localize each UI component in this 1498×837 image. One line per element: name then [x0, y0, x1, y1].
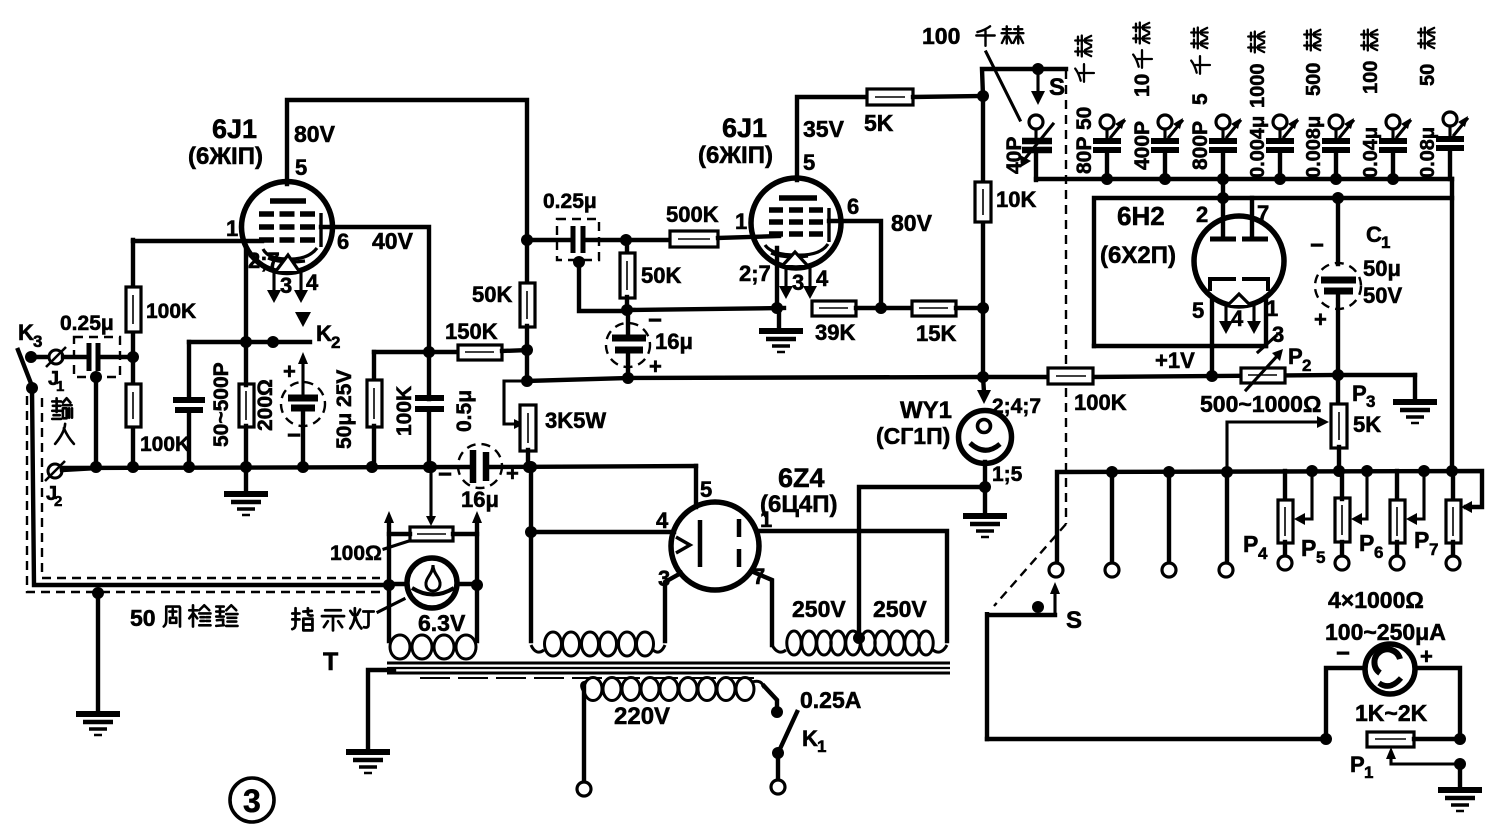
- wire K2 row: [189, 336, 310, 348]
- svg-text:P: P: [1414, 527, 1429, 553]
- capacitor 0.08u: [1417, 28, 1468, 179]
- svg-text:7: 7: [753, 564, 765, 589]
- svg-text:500K: 500K: [666, 202, 719, 227]
- label 220V: [614, 703, 670, 730]
- wire tube1 grid pin1: [133, 239, 262, 243]
- svg-text:4: 4: [1231, 306, 1244, 331]
- wiper P1: [1386, 747, 1466, 770]
- label lamp: [292, 599, 404, 630]
- wire left osc column: [183, 342, 195, 473]
- capacitor 0.25u input: [60, 312, 120, 377]
- svg-text:250V: 250V: [792, 596, 846, 622]
- svg-text:+: +: [1314, 307, 1327, 332]
- svg-text:3: 3: [280, 273, 292, 298]
- wire heater right arm: [471, 511, 483, 641]
- svg-text:0.08μ: 0.08μ: [1417, 127, 1439, 178]
- capacitor 50u 25V electrolytic: [281, 352, 356, 473]
- svg-text:50K: 50K: [472, 282, 512, 307]
- svg-text:150K: 150K: [445, 319, 498, 344]
- svg-text:C: C: [1366, 222, 1382, 247]
- svg-text:−: −: [438, 461, 452, 488]
- svg-text:1: 1: [1266, 296, 1278, 321]
- svg-text:3: 3: [243, 783, 261, 819]
- ground WY1: [963, 516, 1007, 537]
- tube V4 6Z4: [671, 502, 759, 590]
- capacitor 80P: [1073, 36, 1125, 185]
- resistor 100K upper: [126, 287, 196, 332]
- svg-text:6Z4: 6Z4: [778, 463, 825, 493]
- capacitor 0.25u coupling2: [527, 190, 626, 260]
- potentiometer P1: [1350, 732, 1466, 782]
- svg-text:1;5: 1;5: [992, 463, 1023, 486]
- svg-text:5K: 5K: [864, 110, 894, 136]
- label pin1 tube2: [735, 209, 747, 234]
- capacitor 50~500P variable: [173, 362, 233, 447]
- svg-text:15K: 15K: [916, 321, 956, 346]
- terminal mains left: [577, 686, 591, 796]
- label 2;4;7: [992, 395, 1041, 418]
- switch S top arrow: [1031, 72, 1065, 105]
- svg-text:+1V: +1V: [1155, 348, 1195, 373]
- wire shielded lead: [32, 388, 386, 585]
- capacitor C1 50u: [1310, 192, 1402, 381]
- transformer HV winding: [772, 631, 947, 655]
- rheostat 100ohm hum: [330, 467, 477, 565]
- svg-text:3: 3: [658, 566, 670, 591]
- wire tube2 cathode: [771, 248, 783, 314]
- transformer lamp winding: [390, 635, 476, 659]
- svg-text:P: P: [1350, 752, 1365, 777]
- label V4 name: [760, 463, 837, 518]
- wire HV center tap: [853, 487, 985, 644]
- svg-text:400P: 400P: [1131, 121, 1154, 170]
- label 100kHz: [922, 23, 1023, 120]
- jack J2: [45, 461, 65, 510]
- svg-text:16μ: 16μ: [461, 487, 499, 512]
- wire y310 row: [627, 308, 784, 310]
- tube V1 6J1: [242, 182, 333, 273]
- ground osc cathode: [224, 467, 268, 515]
- svg-text:2: 2: [1196, 202, 1208, 227]
- transformer rect heater winding: [531, 632, 665, 656]
- svg-text:+: +: [1420, 644, 1433, 669]
- svg-text:4: 4: [656, 508, 669, 533]
- wire 6Z4 pin7: [751, 564, 772, 645]
- potentiometer P3: [1331, 375, 1381, 477]
- svg-text:0.25μ: 0.25μ: [60, 312, 114, 335]
- wire main B bus right: [983, 370, 1338, 382]
- svg-text:P: P: [1301, 535, 1316, 561]
- ground meter: [1438, 790, 1482, 811]
- svg-text:800P: 800P: [1189, 121, 1212, 170]
- svg-text:40P: 40P: [1003, 137, 1026, 174]
- svg-text:80P: 80P: [1073, 137, 1096, 174]
- svg-text:K: K: [316, 321, 332, 346]
- svg-text:K: K: [802, 726, 818, 751]
- capacitor 16u cathode: [606, 307, 693, 384]
- svg-text:2;7: 2;7: [739, 261, 771, 286]
- svg-text:50: 50: [1417, 64, 1439, 86]
- svg-text:2;7: 2;7: [248, 248, 280, 273]
- capacitor 0.04u: [1360, 30, 1411, 185]
- svg-text:7: 7: [1257, 201, 1269, 226]
- svg-text:100: 100: [922, 23, 960, 49]
- tube V2 6J1: [751, 178, 841, 268]
- resistor 100K osc: [366, 352, 416, 473]
- capacitor 0.008u: [1303, 30, 1354, 185]
- svg-text:5: 5: [295, 155, 307, 180]
- capacitor 40P variable: [1003, 115, 1053, 180]
- label +1V: [1155, 348, 1195, 373]
- resistor 150K: [445, 319, 528, 360]
- svg-text:(6ЖIП): (6ЖIП): [698, 142, 773, 169]
- capacitor 400P: [1131, 23, 1183, 185]
- wire top feed: [982, 63, 1066, 96]
- switch K3 blade: [18, 350, 38, 394]
- svg-text:100K: 100K: [393, 386, 416, 436]
- heater arrows 3 4 tube2: [779, 266, 829, 299]
- svg-text:0.004μ: 0.004μ: [1247, 116, 1269, 178]
- wire cap to grid node: [100, 351, 139, 363]
- svg-text:1: 1: [226, 216, 238, 241]
- wire rectifier frame: [1094, 198, 1452, 376]
- label 35V pin5: [803, 116, 845, 175]
- label 1K~2K: [1355, 700, 1428, 726]
- svg-text:6.3V: 6.3V: [418, 610, 466, 636]
- svg-text:1: 1: [760, 507, 772, 532]
- svg-text:6H2: 6H2: [1117, 201, 1165, 231]
- potentiometer P5: [1301, 471, 1367, 570]
- wire J1 to C 0.25u: [63, 355, 88, 359]
- svg-text:3: 3: [792, 270, 804, 295]
- svg-text:16μ: 16μ: [655, 329, 693, 354]
- svg-text:4: 4: [1258, 544, 1268, 563]
- label V1 name: [188, 114, 263, 170]
- resistor 10K: [975, 182, 1036, 222]
- shield cable dashed: [27, 396, 380, 592]
- svg-text:5: 5: [803, 150, 815, 175]
- capacitor 0.5u: [415, 352, 476, 473]
- ground input shield: [76, 714, 120, 735]
- svg-text:S: S: [1066, 607, 1082, 634]
- svg-text:200Ω: 200Ω: [254, 379, 277, 431]
- svg-text:6J1: 6J1: [212, 114, 257, 144]
- svg-text:0.5μ: 0.5μ: [453, 390, 476, 432]
- svg-text:6: 6: [1374, 543, 1383, 562]
- wire right rail: [1446, 179, 1458, 477]
- wire feedback bus y378: [527, 377, 983, 381]
- svg-text:0.25μ: 0.25μ: [543, 190, 597, 213]
- svg-text:1K~2K: 1K~2K: [1355, 700, 1428, 726]
- svg-text:50V: 50V: [1363, 283, 1402, 308]
- meter M: [1326, 640, 1460, 739]
- resistor 200ohm: [239, 342, 277, 473]
- svg-text:10K: 10K: [996, 187, 1036, 212]
- svg-text:2: 2: [54, 493, 62, 510]
- svg-text:4: 4: [306, 270, 319, 295]
- switch K1: [764, 686, 861, 794]
- svg-text:0.25A: 0.25A: [800, 687, 861, 713]
- resistor 15K: [912, 301, 989, 346]
- svg-text:P: P: [1359, 530, 1374, 556]
- heater arrows 3 4 tube1: [267, 270, 319, 303]
- svg-text:(6ЖIП): (6ЖIП): [188, 143, 263, 170]
- svg-text:3: 3: [1366, 392, 1375, 411]
- label pin7: [1257, 201, 1269, 226]
- wire selector bus: [1057, 465, 1482, 563]
- svg-text:+: +: [649, 354, 662, 379]
- wire B+ node column: [977, 90, 989, 383]
- svg-text:4×1000Ω: 4×1000Ω: [1328, 587, 1424, 613]
- label pin5 6Z4: [700, 477, 712, 502]
- wire J2 to bus: [62, 468, 97, 470]
- label 50 zhou jian yan: [130, 605, 238, 631]
- svg-text:1000: 1000: [1247, 64, 1269, 109]
- svg-text:(6X2П): (6X2П): [1100, 242, 1176, 269]
- potentiometer P7: [1414, 471, 1461, 570]
- label pin6 40V: [337, 228, 414, 254]
- label 100~250uA: [1325, 619, 1446, 645]
- svg-text:2: 2: [1302, 356, 1311, 375]
- label 250V 250V: [792, 596, 927, 622]
- svg-text:5: 5: [1192, 298, 1204, 323]
- wire capbank bus: [1036, 177, 1452, 181]
- jack J1: [46, 347, 66, 395]
- wire tube1 cathode down: [246, 250, 279, 348]
- label input (shu ru): [52, 398, 74, 444]
- svg-text:5: 5: [1316, 548, 1325, 567]
- svg-text:1: 1: [1381, 233, 1390, 252]
- svg-text:7: 7: [1429, 540, 1438, 559]
- svg-text:3K5W: 3K5W: [545, 408, 606, 433]
- transformer core: [387, 663, 950, 678]
- potentiometer P4: [1243, 471, 1312, 570]
- resistor 5K: [864, 89, 983, 136]
- label pin5: [1192, 298, 1204, 323]
- svg-text:4: 4: [816, 266, 829, 291]
- resistor 50K cathode2: [620, 240, 681, 311]
- svg-text:50μ: 50μ: [1363, 256, 1401, 281]
- capacitor 16u filter: [438, 444, 519, 512]
- svg-text:1: 1: [735, 209, 747, 234]
- svg-text:T: T: [323, 648, 338, 676]
- transformer 220V winding: [582, 678, 764, 701]
- resistor 100K lower: [126, 384, 190, 456]
- wire tube2 pin6: [829, 194, 933, 308]
- ground B minus: [1393, 402, 1437, 423]
- svg-text:2: 2: [331, 333, 340, 352]
- badge circled 3: [230, 778, 274, 822]
- ganged switch dashed link: [994, 70, 1066, 606]
- resistor 500K: [626, 202, 779, 247]
- svg-text:6: 6: [337, 229, 349, 254]
- label pin3 pointer: [1258, 322, 1284, 352]
- svg-text:500~1000Ω: 500~1000Ω: [1200, 391, 1321, 417]
- switch S pole: [987, 582, 1082, 739]
- label WY1: [876, 397, 952, 449]
- svg-text:80V: 80V: [294, 121, 336, 147]
- wire P2 to ground corner: [1338, 375, 1415, 400]
- tube V3 6H2: [1194, 173, 1284, 306]
- wire tube1 pin6: [321, 227, 429, 352]
- svg-text:−: −: [1310, 232, 1324, 259]
- wire tube2 plate to 5K: [797, 97, 868, 180]
- svg-text:WY1: WY1: [900, 397, 952, 424]
- wire cap2 bottom tap: [573, 256, 626, 311]
- wire bottom bus: [987, 733, 1332, 745]
- wire rect heater column: [529, 467, 533, 641]
- svg-text:−: −: [287, 422, 301, 449]
- svg-text:35V: 35V: [803, 116, 845, 142]
- svg-text:500: 500: [1303, 63, 1325, 96]
- wire cap bottom tap: [90, 371, 102, 473]
- svg-text:6: 6: [847, 194, 859, 219]
- svg-text:0.008μ: 0.008μ: [1303, 116, 1325, 178]
- capacitor 0.004u: [1247, 32, 1298, 185]
- svg-text:50~500P: 50~500P: [210, 362, 233, 447]
- svg-text:(СГ1П): (СГ1П): [876, 423, 950, 449]
- svg-text:3: 3: [33, 332, 42, 351]
- node 50K bottom: [621, 304, 633, 316]
- svg-text:100K: 100K: [1074, 390, 1127, 415]
- wire grid column x133: [127, 240, 139, 473]
- capacitor 800P: [1189, 28, 1241, 185]
- resistor 50K grid2: [472, 240, 535, 387]
- label 4x1000ohm: [1328, 587, 1424, 613]
- svg-text:6J1: 6J1: [722, 113, 767, 143]
- lamp indicator: [389, 558, 477, 608]
- svg-text:39K: 39K: [815, 320, 855, 345]
- wire 6Z4 pin3: [658, 566, 681, 641]
- svg-text:1: 1: [56, 378, 64, 395]
- wire tube1 plate to B+: [287, 100, 527, 240]
- svg-text:10: 10: [1131, 74, 1154, 97]
- svg-text:220V: 220V: [614, 703, 670, 730]
- wire WY1 to ground: [979, 462, 991, 514]
- svg-text:40V: 40V: [372, 228, 414, 254]
- svg-text:1: 1: [817, 737, 826, 756]
- svg-text:P: P: [1243, 531, 1258, 557]
- svg-text:50K: 50K: [641, 263, 681, 288]
- svg-text:0.04μ: 0.04μ: [1360, 127, 1382, 178]
- wire K3 to J1: [31, 355, 48, 359]
- svg-text:5: 5: [1189, 93, 1212, 105]
- potentiometer P2: [1200, 344, 1321, 417]
- resistor 100K series: [1048, 368, 1127, 415]
- label 6.3V: [418, 610, 466, 636]
- label pins 2;7: [248, 248, 280, 273]
- node grid tube2: [620, 234, 632, 246]
- switch S contacts: [1049, 472, 1233, 577]
- ground tube2 cathode: [759, 308, 803, 352]
- svg-text:−: −: [1336, 640, 1350, 667]
- svg-text:50: 50: [130, 605, 156, 631]
- svg-text:250V: 250V: [873, 596, 927, 622]
- svg-text:P: P: [1352, 381, 1367, 406]
- svg-text:100K: 100K: [140, 433, 190, 456]
- label pins 1;5: [992, 463, 1023, 486]
- label pin2: [1196, 202, 1208, 227]
- svg-text:1: 1: [1364, 763, 1373, 782]
- ground core T: [323, 648, 394, 773]
- svg-text:S: S: [1049, 74, 1065, 101]
- svg-text:100Ω: 100Ω: [330, 542, 382, 565]
- tube WY1 regulator: [959, 377, 1012, 464]
- wiper P3: [1227, 416, 1329, 471]
- resistor 39K: [812, 301, 912, 345]
- wire y352 row: [374, 346, 458, 358]
- svg-text:3: 3: [1272, 322, 1284, 347]
- svg-text:50μ 25V: 50μ 25V: [333, 370, 356, 449]
- wire heater left arm: [383, 511, 395, 641]
- svg-text:5: 5: [700, 477, 712, 502]
- test point K2: [295, 312, 340, 352]
- wire to ground right: [1458, 764, 1462, 788]
- wire 6Z4 pin4: [525, 508, 674, 538]
- label V3 name: [1100, 201, 1176, 269]
- label 80V pin5: [294, 121, 336, 180]
- potentiometer P6: [1359, 471, 1424, 570]
- svg-text:+: +: [506, 461, 519, 486]
- heater arrows 4 1 tube3: [1219, 296, 1278, 334]
- label K3: [18, 320, 42, 351]
- wire heater bus y467: [62, 461, 696, 507]
- node B+ to coupling cap: [521, 234, 533, 246]
- label pin1: [226, 216, 238, 241]
- svg-text:5K: 5K: [1353, 412, 1381, 437]
- label pins 2;7 tube2: [739, 261, 771, 286]
- node shield ground tap: [92, 587, 104, 712]
- svg-text:P: P: [1288, 344, 1303, 369]
- rheostat 3K5W: [504, 381, 606, 473]
- label V2 name: [698, 113, 773, 169]
- svg-text:K: K: [18, 320, 34, 345]
- svg-text:80V: 80V: [891, 210, 933, 236]
- svg-text:100K: 100K: [146, 300, 196, 323]
- svg-text:100: 100: [1360, 61, 1382, 94]
- svg-text:50: 50: [1073, 107, 1096, 130]
- wire 6Z4 pin1: [757, 507, 947, 641]
- svg-text:+: +: [283, 359, 296, 384]
